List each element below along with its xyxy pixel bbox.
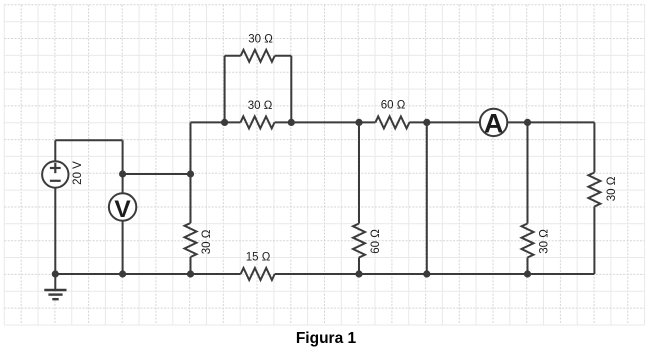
wire: top rail segment 2 [275, 121, 376, 123]
svg-text:15 Ω: 15 Ω [246, 252, 271, 264]
junction bottom rail / voltmeter branch [119, 270, 126, 277]
junction top rail / middle wire [423, 119, 430, 126]
wire: left branch upper [190, 122, 192, 223]
svg-text:60 Ω: 60 Ω [370, 229, 382, 254]
resistor R7 30 Ohm (mid-right vertical branch) [522, 224, 551, 258]
resistor R1 30 Ohm (top of parallel pair) [241, 34, 275, 62]
svg-text:30 Ω: 30 Ω [606, 176, 618, 201]
junction top rail / parallel loop right [288, 119, 295, 126]
voltmeter V [109, 193, 136, 223]
svg-text:30 Ω: 30 Ω [248, 34, 273, 46]
node A (voltmeter tap) [119, 170, 126, 177]
voltage source V1 20 V [42, 161, 84, 188]
wire: right branch upper [593, 122, 595, 172]
junction bottom rail / ground [52, 270, 59, 277]
resistor R2 30 Ohm (bottom of parallel pair, on top rail) [241, 100, 275, 128]
wire: loop top left stub [225, 55, 241, 57]
svg-text:30 Ω: 30 Ω [201, 229, 213, 254]
wire: parallel loop left vertical [224, 56, 226, 123]
wire: 60 ohm branch upper [358, 122, 360, 223]
junction bottom rail / left branch [187, 270, 194, 277]
wire: loop top right stub [275, 55, 292, 57]
resistor R6 60 Ohm (vertical branch) [353, 224, 382, 258]
wire: top rail segment 1 [191, 121, 241, 123]
svg-text:20 V: 20 V [72, 161, 84, 185]
wire: 30 ohm mid branch upper [527, 122, 529, 223]
wire: plain middle vertical [426, 122, 428, 274]
wire: corner down to node A [122, 140, 124, 174]
node B (left branch tap) [187, 170, 194, 177]
resistor R5 30 Ohm (left vertical branch) [185, 223, 214, 257]
wire: source top to corner [55, 139, 122, 141]
wire: node A to node B [123, 173, 191, 175]
wire: right branch lower [593, 207, 595, 275]
junction bottom rail / middle wire [423, 270, 430, 277]
wire: 30 ohm mid branch lower [527, 258, 529, 275]
resistor R3 60 Ohm (horizontal on top rail) [375, 100, 409, 129]
wire: left branch lower [190, 257, 192, 274]
wire: voltmeter branch node A down to bottom rail [122, 174, 124, 274]
ammeter A [480, 109, 507, 139]
junction top rail / 30 ohm mid branch [524, 119, 531, 126]
junction top rail / parallel loop left [221, 119, 228, 126]
resistor R4 15 Ohm (horizontal on bottom rail) [241, 252, 275, 281]
junction top rail / 60 ohm branch [355, 119, 362, 126]
wire: top rail segment 3 (through ammeter) [409, 121, 594, 123]
wire: bottom rail right of 15 ohm [275, 273, 595, 275]
wire: bottom rail left of 15 ohm [55, 273, 240, 275]
ground [44, 274, 66, 299]
svg-text:60 Ω: 60 Ω [381, 100, 406, 112]
resistor R8 30 Ohm (rightmost vertical branch) [588, 173, 618, 207]
svg-text:30 Ω: 30 Ω [539, 229, 551, 254]
wire: parallel loop right vertical [290, 56, 292, 123]
svg-text:Figura 1: Figura 1 [296, 330, 357, 347]
svg-text:V: V [114, 196, 131, 223]
wire: source branch vertical [54, 140, 56, 274]
junction bottom rail / 60 ohm branch [355, 270, 362, 277]
svg-text:30 Ω: 30 Ω [248, 100, 273, 112]
junction bottom rail / 30 ohm mid branch [524, 270, 531, 277]
svg-text:A: A [484, 109, 504, 139]
wire: 60 ohm branch lower [358, 258, 360, 275]
